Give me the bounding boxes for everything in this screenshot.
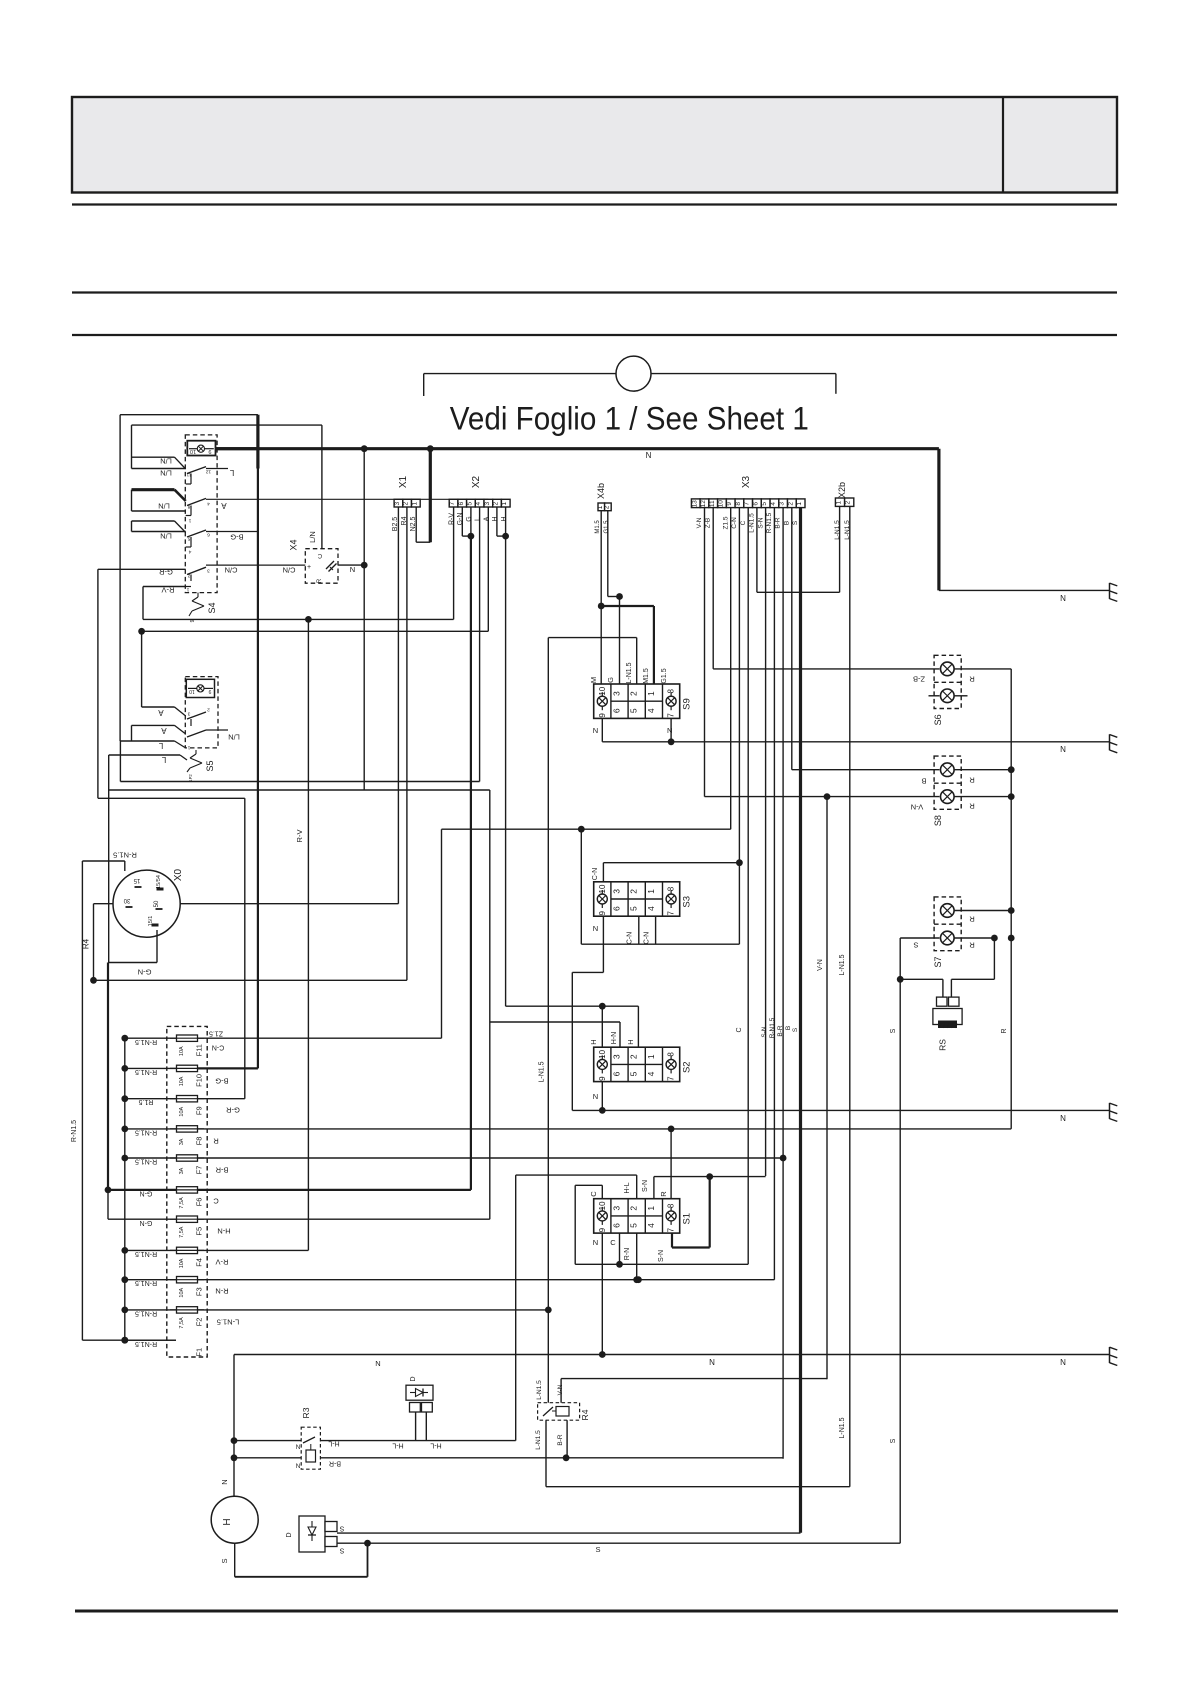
svg-text:H-L: H-L [430, 1442, 441, 1449]
svg-text:3: 3 [779, 502, 786, 506]
svg-text:3: 3 [612, 889, 622, 894]
svg-text:15/1: 15/1 [148, 916, 154, 927]
svg-text:H-L: H-L [624, 1182, 631, 1193]
svg-text:F1: F1 [195, 1348, 204, 1357]
svg-text:R-N1.5: R-N1.5 [769, 1017, 776, 1038]
svg-text:C-N: C-N [627, 932, 634, 944]
svg-text:C: C [740, 520, 747, 525]
svg-text:X0: X0 [173, 868, 184, 881]
svg-text:F7: F7 [195, 1166, 204, 1175]
svg-text:N2.5: N2.5 [410, 517, 417, 532]
svg-text:G: G [606, 677, 615, 683]
svg-text:6: 6 [207, 531, 210, 537]
svg-text:R-V: R-V [295, 830, 304, 843]
svg-text:A: A [158, 708, 164, 717]
svg-text:10: 10 [598, 1049, 607, 1058]
svg-text:L-N1.5: L-N1.5 [834, 520, 841, 540]
svg-text:M: M [589, 677, 598, 683]
svg-text:H-N: H-N [217, 1226, 230, 1235]
svg-text:12: 12 [206, 468, 212, 474]
svg-text:1: 1 [646, 1206, 656, 1211]
svg-text:L/N: L/N [308, 531, 317, 543]
svg-text:3A: 3A [179, 1138, 185, 1145]
svg-text:1: 1 [796, 502, 803, 506]
svg-text:L-N1.5: L-N1.5 [839, 954, 846, 975]
svg-text:2: 2 [629, 889, 639, 894]
svg-text:5: 5 [629, 906, 639, 911]
svg-text:4: 4 [207, 500, 210, 506]
svg-text:7: 7 [667, 1227, 676, 1232]
svg-text:H-N: H-N [611, 1032, 618, 1044]
svg-text:10: 10 [598, 884, 607, 893]
svg-text:R-V: R-V [449, 513, 456, 525]
svg-text:N: N [667, 726, 672, 735]
svg-text:D: D [286, 1532, 293, 1537]
svg-text:R-N: R-N [624, 1248, 631, 1260]
svg-text:F2: F2 [195, 1318, 204, 1327]
svg-text:A: A [221, 501, 227, 510]
svg-text:L-N1.5: L-N1.5 [217, 1317, 240, 1326]
svg-text:5: 5 [466, 502, 473, 506]
svg-text:S9: S9 [682, 698, 693, 710]
svg-text:10A: 10A [179, 1046, 185, 1056]
svg-text:R-N1.5: R-N1.5 [135, 1340, 157, 1347]
svg-text:2: 2 [187, 572, 190, 578]
svg-text:1: 1 [501, 502, 508, 506]
svg-text:11: 11 [186, 471, 191, 477]
svg-text:F11: F11 [195, 1044, 204, 1056]
svg-text:X1: X1 [398, 475, 409, 488]
svg-text:N: N [1060, 1358, 1066, 1367]
svg-text:R-N1.5: R-N1.5 [113, 850, 137, 859]
svg-text:2: 2 [493, 502, 500, 506]
svg-text:3A: 3A [179, 1167, 185, 1174]
svg-text:6: 6 [752, 502, 759, 506]
svg-text:C-N: C-N [731, 517, 738, 529]
svg-text:X2b: X2b [837, 482, 847, 498]
svg-text:5: 5 [629, 1223, 639, 1228]
svg-text:R-N1.5: R-N1.5 [135, 1279, 157, 1286]
svg-text:H: H [501, 516, 508, 521]
svg-text:H: H [626, 1039, 635, 1044]
svg-text:L/N: L/N [158, 501, 170, 510]
svg-text:R: R [1001, 1028, 1008, 1033]
svg-text:11: 11 [709, 500, 716, 507]
svg-text:C-N: C-N [212, 1044, 224, 1051]
svg-text:15/54: 15/54 [156, 875, 162, 889]
svg-text:8: 8 [735, 502, 742, 506]
svg-text:S7: S7 [933, 956, 943, 967]
svg-text:L-N1.5: L-N1.5 [535, 1430, 542, 1450]
svg-text:9: 9 [598, 910, 607, 915]
svg-text:R3: R3 [301, 1407, 311, 1418]
svg-text:7: 7 [667, 1076, 676, 1081]
svg-text:2: 2 [603, 505, 610, 509]
svg-text:L/N: L/N [228, 732, 240, 741]
svg-text:C-N: C-N [644, 932, 651, 944]
svg-text:V-N: V-N [817, 959, 824, 971]
svg-text:R: R [969, 914, 975, 923]
svg-text:L-N1.5: L-N1.5 [536, 1380, 543, 1400]
svg-text:S8: S8 [933, 815, 943, 826]
svg-text:G-N: G-N [457, 513, 464, 526]
svg-text:R-N1.5: R-N1.5 [766, 512, 773, 533]
svg-text:50: 50 [154, 900, 160, 907]
svg-text:1: 1 [411, 502, 418, 506]
svg-text:D: D [410, 1376, 417, 1381]
svg-text:15: 15 [133, 877, 140, 883]
svg-text:6: 6 [612, 1071, 622, 1076]
svg-text:V-N: V-N [911, 802, 924, 811]
svg-text:G-N: G-N [140, 1219, 153, 1226]
svg-text:L-N1.5: L-N1.5 [539, 1061, 546, 1082]
svg-text:10: 10 [718, 500, 725, 508]
svg-text:10: 10 [190, 448, 196, 454]
svg-text:H: H [589, 1039, 598, 1044]
svg-text:S-N: S-N [642, 1180, 649, 1192]
svg-text:G-R: G-R [159, 567, 173, 576]
svg-text:A: A [483, 516, 490, 521]
svg-text:S2: S2 [682, 1061, 693, 1073]
svg-text:C: C [589, 1191, 598, 1197]
svg-text:1: 1 [646, 889, 656, 894]
svg-text:8: 8 [667, 1052, 676, 1057]
svg-text:9: 9 [598, 713, 607, 718]
svg-text:3: 3 [612, 1054, 622, 1059]
svg-text:R-N1.5: R-N1.5 [135, 1250, 157, 1257]
svg-text:L: L [475, 517, 482, 521]
svg-text:10A: 10A [179, 1287, 185, 1297]
svg-text:6: 6 [458, 502, 465, 506]
svg-text:R-N: R-N [215, 1286, 228, 1295]
svg-text:4: 4 [646, 906, 656, 911]
svg-text:G-N: G-N [140, 1190, 153, 1197]
svg-text:L/N: L/N [160, 531, 172, 540]
svg-text:7,5A: 7,5A [179, 1197, 185, 1209]
svg-text:4: 4 [188, 548, 191, 554]
svg-text:7,5A: 7,5A [179, 1317, 185, 1329]
svg-text:12: 12 [700, 500, 707, 508]
svg-text:Z-B: Z-B [913, 674, 925, 683]
svg-text:F4: F4 [195, 1258, 204, 1267]
svg-text:R: R [317, 578, 323, 583]
svg-text:B2.5: B2.5 [392, 517, 399, 532]
svg-text:B-G: B-G [230, 532, 244, 541]
svg-text:10A: 10A [179, 1106, 185, 1116]
svg-text:3: 3 [187, 710, 190, 716]
svg-text:G1.5: G1.5 [604, 520, 610, 534]
svg-text:10: 10 [598, 1201, 607, 1210]
svg-text:F5: F5 [195, 1227, 204, 1236]
svg-text:2: 2 [787, 502, 794, 506]
svg-text:L: L [161, 755, 166, 764]
svg-text:Z1.5: Z1.5 [722, 516, 729, 529]
svg-text:B-G: B-G [215, 1076, 229, 1085]
svg-text:7: 7 [744, 502, 751, 506]
svg-text:C: C [736, 1027, 743, 1032]
svg-text:2: 2 [403, 502, 410, 506]
svg-text:S1: S1 [682, 1213, 693, 1225]
svg-text:B-R: B-R [557, 1434, 564, 1446]
svg-text:L-N1.5: L-N1.5 [749, 513, 756, 533]
svg-text:R4: R4 [580, 1409, 590, 1420]
svg-text:L-N1.5: L-N1.5 [626, 662, 633, 683]
svg-text:13: 13 [691, 500, 698, 508]
svg-text:S: S [913, 940, 918, 949]
svg-text:N: N [350, 565, 355, 574]
svg-text:N: N [220, 1479, 229, 1484]
svg-text:N: N [1060, 1114, 1066, 1123]
svg-text:10A: 10A [179, 1258, 185, 1268]
svg-text:5: 5 [629, 708, 639, 713]
svg-text:N: N [1060, 745, 1066, 754]
svg-text:S: S [792, 520, 799, 525]
svg-text:1: 1 [646, 1054, 656, 1059]
svg-text:X4: X4 [288, 539, 298, 550]
svg-text:5: 5 [761, 502, 768, 506]
svg-text:1: 1 [836, 501, 843, 505]
svg-text:1: 1 [187, 744, 190, 750]
svg-text:S6: S6 [933, 714, 943, 725]
svg-text:X4b: X4b [596, 483, 606, 499]
svg-text:N: N [593, 726, 598, 735]
svg-text:R4: R4 [401, 516, 408, 525]
svg-text:3: 3 [394, 502, 401, 506]
svg-text:8: 8 [667, 886, 676, 891]
svg-text:B-R: B-R [775, 517, 782, 529]
svg-text:H-L: H-L [392, 1442, 403, 1449]
svg-text:Z-B: Z-B [705, 518, 712, 528]
svg-text:M1.5: M1.5 [595, 520, 601, 534]
svg-text:R: R [213, 1136, 219, 1145]
svg-text:R-N1.5: R-N1.5 [135, 1310, 157, 1317]
svg-text:R4: R4 [82, 938, 91, 949]
svg-text:30: 30 [123, 897, 130, 903]
svg-text:C-N: C-N [592, 868, 599, 880]
svg-text:N: N [593, 1092, 598, 1101]
svg-text:8: 8 [667, 688, 676, 693]
svg-text:R1.5: R1.5 [139, 1098, 154, 1105]
svg-text:N: N [593, 1238, 598, 1247]
svg-text:3: 3 [612, 691, 622, 696]
svg-text:G-R: G-R [226, 1105, 240, 1114]
svg-text:2: 2 [629, 1054, 639, 1059]
svg-text:2: 2 [207, 706, 210, 712]
svg-text:S4: S4 [207, 602, 217, 613]
svg-text:M1.5: M1.5 [643, 668, 650, 684]
svg-text:B-R: B-R [777, 1025, 784, 1037]
svg-text:L/N: L/N [160, 456, 172, 465]
svg-text:C: C [213, 1196, 219, 1205]
svg-text:S: S [890, 1438, 897, 1443]
svg-text:S: S [339, 1525, 344, 1532]
svg-text:S: S [339, 1547, 344, 1554]
svg-text:4: 4 [475, 502, 482, 506]
svg-text:9: 9 [208, 688, 211, 694]
svg-text:R: R [969, 801, 975, 810]
svg-text:N: N [375, 1359, 380, 1368]
svg-text:S-N: S-N [757, 517, 764, 529]
svg-text:R-N1.5: R-N1.5 [135, 1068, 157, 1075]
svg-text:R-N1.5: R-N1.5 [135, 1158, 157, 1165]
svg-text:S5: S5 [205, 760, 215, 771]
svg-text:5: 5 [187, 535, 190, 541]
svg-text:H: H [222, 1518, 233, 1525]
svg-text:1: 1 [188, 517, 191, 523]
svg-text:1: 1 [186, 586, 189, 592]
svg-text:7: 7 [449, 502, 456, 506]
svg-text:C/N: C/N [225, 565, 238, 574]
svg-text:B-R: B-R [329, 1460, 341, 1467]
svg-text:V-N: V-N [696, 517, 703, 528]
svg-text:6: 6 [612, 906, 622, 911]
svg-text:Z1.5: Z1.5 [209, 1030, 223, 1037]
svg-text:7,5A: 7,5A [179, 1226, 185, 1238]
svg-text:4: 4 [646, 708, 656, 713]
svg-text:B: B [921, 776, 926, 785]
svg-text:S-N: S-N [761, 1026, 768, 1038]
svg-text:F10: F10 [195, 1074, 204, 1087]
svg-text:B: B [783, 521, 790, 525]
svg-text:R-N1.5: R-N1.5 [135, 1038, 157, 1045]
svg-text:9: 9 [598, 1227, 607, 1232]
svg-text:10: 10 [189, 688, 195, 694]
svg-text:N: N [709, 1358, 715, 1367]
svg-text:X3: X3 [741, 475, 752, 488]
svg-text:1: 1 [646, 691, 656, 696]
svg-text:L-N1.5: L-N1.5 [839, 1417, 846, 1438]
svg-text:S: S [792, 1027, 799, 1032]
svg-text:R-V: R-V [216, 1257, 229, 1266]
svg-text:RS: RS [937, 1039, 947, 1051]
svg-text:8: 8 [187, 503, 190, 509]
svg-text:R-N1.5: R-N1.5 [135, 1129, 157, 1136]
svg-text:8: 8 [667, 1203, 676, 1208]
svg-text:L/N: L/N [160, 468, 172, 477]
svg-text:L: L [158, 741, 163, 750]
svg-text:H: H [492, 516, 499, 521]
svg-text:3: 3 [484, 502, 491, 506]
svg-text:B-R: B-R [215, 1165, 229, 1174]
svg-text:F3: F3 [195, 1287, 204, 1296]
svg-text:A: A [161, 726, 167, 735]
svg-text:G: G [466, 516, 473, 521]
svg-text:N: N [646, 451, 652, 460]
svg-text:R-V: R-V [162, 585, 175, 594]
svg-text:R: R [969, 674, 975, 683]
svg-text:H-L: H-L [328, 1440, 339, 1447]
svg-text:N: N [1060, 594, 1066, 603]
svg-text:9: 9 [726, 502, 733, 506]
svg-text:S: S [220, 1558, 229, 1563]
svg-text:+: + [307, 564, 311, 571]
svg-text:9: 9 [208, 448, 211, 454]
svg-text:C: C [317, 552, 322, 558]
svg-text:2: 2 [845, 501, 852, 505]
svg-text:C/N: C/N [283, 565, 296, 574]
svg-text:X2: X2 [471, 475, 482, 488]
svg-text:4: 4 [646, 1223, 656, 1228]
svg-text:R: R [659, 1191, 668, 1197]
svg-text:N: N [593, 924, 598, 933]
svg-text:N: N [295, 1462, 300, 1469]
svg-text:R: R [969, 775, 975, 784]
svg-text:F9: F9 [195, 1106, 204, 1115]
svg-text:7: 7 [667, 713, 676, 718]
svg-text:R: R [969, 940, 975, 949]
svg-text:B: B [785, 1026, 792, 1030]
svg-text:3: 3 [207, 567, 210, 573]
svg-text:F6: F6 [195, 1198, 204, 1207]
svg-text:3: 3 [612, 1206, 622, 1211]
svg-text:G1.5: G1.5 [661, 668, 668, 683]
svg-text:7: 7 [667, 910, 676, 915]
svg-text:10A: 10A [179, 1076, 185, 1086]
svg-text:2: 2 [629, 691, 639, 696]
svg-text:V-N: V-N [557, 1384, 564, 1395]
svg-text:9: 9 [598, 1076, 607, 1081]
svg-text:5: 5 [629, 1071, 639, 1076]
svg-text:10: 10 [598, 686, 607, 695]
svg-text:L-N1.5: L-N1.5 [844, 520, 851, 540]
svg-text:2: 2 [629, 1206, 639, 1211]
svg-text:S3: S3 [682, 896, 693, 908]
svg-text:N: N [295, 1443, 300, 1450]
svg-text:6: 6 [612, 1223, 622, 1228]
svg-text:4: 4 [646, 1071, 656, 1076]
svg-text:F8: F8 [195, 1137, 204, 1146]
svg-text:6: 6 [612, 708, 622, 713]
svg-text:9: 9 [190, 619, 196, 622]
svg-text:S-N: S-N [658, 1250, 665, 1262]
svg-text:R-N1.5: R-N1.5 [71, 1120, 78, 1142]
svg-text:Vedi Foglio 1 / See Sheet 1: Vedi Foglio 1 / See Sheet 1 [450, 400, 809, 436]
svg-text:1P2: 1P2 [188, 774, 193, 782]
svg-text:S: S [890, 1028, 897, 1033]
svg-text:4: 4 [770, 502, 777, 506]
svg-text:S: S [595, 1545, 600, 1554]
svg-text:C: C [610, 1238, 616, 1247]
svg-text:L: L [229, 468, 234, 477]
svg-text:G-N: G-N [138, 967, 152, 976]
